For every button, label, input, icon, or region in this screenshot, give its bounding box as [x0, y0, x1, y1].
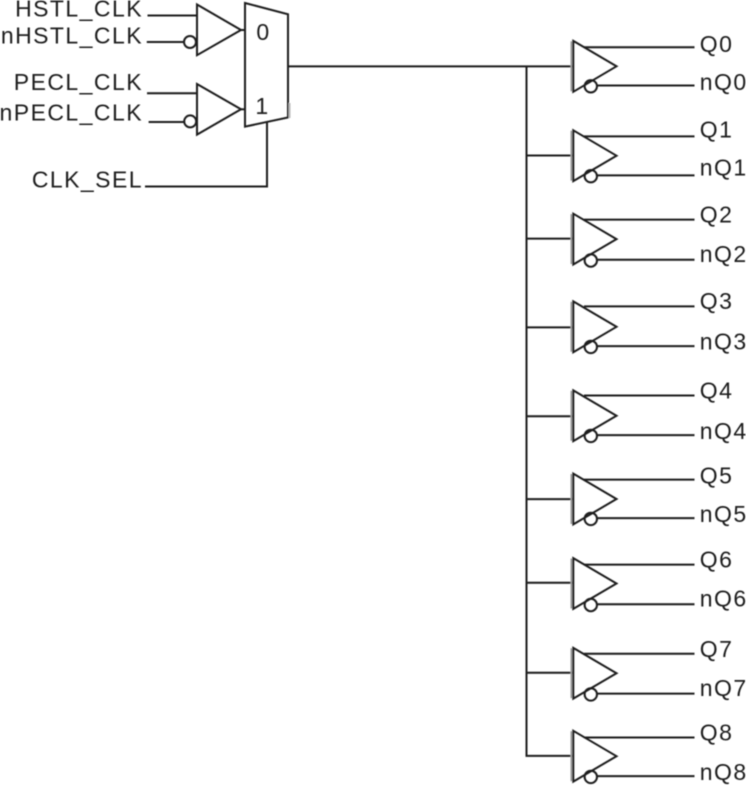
wire Q5	[584, 479, 695, 481]
wire U1 output to mux pin 0	[241, 29, 245, 31]
wire nQ8	[597, 775, 695, 777]
svg-text:nQ1: nQ1	[700, 155, 746, 181]
wire nQ1	[597, 174, 695, 176]
buffer U9 (output Q5)	[527, 462, 746, 527]
wire Q3	[584, 305, 695, 307]
buffer U7 (output Q3)	[527, 288, 746, 354]
inverting bubble U12	[585, 771, 597, 783]
left-edge ghost artifact U9	[570, 474, 572, 524]
wire nQ4	[597, 434, 695, 436]
inverting bubble U6	[585, 254, 597, 266]
wire Q2	[584, 219, 695, 221]
wire HSTL_CLK to buffer U1	[148, 15, 198, 17]
svg-text:nQ3: nQ3	[700, 328, 746, 354]
wire U2 output to mux pin 1	[241, 108, 245, 110]
inverting bubble U11	[585, 688, 597, 700]
svg-text:nQ0: nQ0	[700, 69, 746, 95]
wire Q8	[584, 737, 695, 739]
buffer U8 (output Q4)	[527, 377, 746, 444]
wire mux output main	[288, 65, 573, 67]
wire Q1	[584, 135, 695, 137]
wire bus stub to buffer U11	[527, 672, 574, 674]
svg-text:CLK_SEL: CLK_SEL	[32, 167, 143, 193]
buffer U2 (PECL input)	[197, 84, 241, 135]
wire nQ0	[597, 85, 695, 87]
svg-text:HSTL_CLK: HSTL_CLK	[15, 0, 143, 21]
buffer U10 (output Q6)	[527, 546, 746, 611]
inverting bubble U2	[184, 115, 196, 127]
wire nQ3	[597, 345, 695, 347]
left-edge ghost artifact U6	[570, 214, 572, 264]
svg-text:nQ6: nQ6	[700, 585, 746, 611]
buffer U12 (output Q8)	[571, 719, 746, 785]
left-edge ghost artifact U7	[570, 302, 572, 352]
wire nQ6	[597, 603, 695, 605]
svg-text:Q6: Q6	[700, 546, 734, 572]
mux U3	[245, 3, 288, 127]
svg-text:PECL_CLK: PECL_CLK	[14, 69, 143, 95]
wire bus stub to buffer U5	[527, 155, 574, 157]
wire bus stub to buffer U7	[527, 326, 574, 328]
wire CLK_SEL vertical to mux select	[266, 122, 268, 188]
buffer U1 (HSTL input)	[197, 5, 241, 56]
wire PECL_CLK to buffer U2	[147, 92, 197, 94]
wire nPECL_CLK to buffer U2 bubble	[149, 121, 184, 123]
svg-text:Q1: Q1	[700, 116, 734, 142]
left-edge ghost artifact U12	[570, 731, 572, 781]
left-edge ghost artifact U11	[570, 648, 572, 698]
left-edge ghost artifact U10	[570, 559, 572, 609]
svg-text:nQ2: nQ2	[700, 241, 746, 267]
svg-text:Q7: Q7	[700, 636, 734, 662]
wire nHSTL_CLK to buffer U1 bubble	[147, 41, 184, 43]
wire Q0	[584, 46, 695, 48]
inverting bubble U10	[585, 599, 597, 611]
wire bus stub to buffer U9	[527, 498, 574, 500]
left-edge ghost artifact U8	[570, 391, 572, 441]
svg-text:nQ8: nQ8	[700, 759, 746, 785]
inverting bubble U8	[585, 430, 597, 442]
inverting bubble U1	[184, 36, 196, 48]
wire Q7	[584, 653, 695, 655]
wire nQ7	[597, 693, 695, 695]
svg-text:0: 0	[256, 19, 270, 45]
wire CLK_SEL horizontal	[145, 186, 267, 188]
buffer U4 (output Q0)	[571, 31, 746, 95]
inverting bubble U7	[585, 341, 597, 353]
svg-text:Q2: Q2	[700, 201, 734, 227]
wire nQ5	[597, 517, 695, 519]
inverting bubble U9	[585, 513, 597, 525]
inverting bubble U4	[585, 80, 597, 92]
wire Q4	[584, 395, 695, 397]
svg-text:nQ5: nQ5	[700, 501, 746, 527]
svg-text:nQ7: nQ7	[700, 675, 746, 701]
wire bus vertical	[527, 66, 574, 756]
buffer U5 (output Q1)	[527, 116, 746, 182]
wire Q6	[584, 564, 695, 566]
svg-text:nHSTL_CLK: nHSTL_CLK	[1, 23, 143, 49]
buffer U11 (output Q7)	[527, 636, 746, 701]
svg-text:Q3: Q3	[700, 288, 734, 314]
buffer U6 (output Q2)	[527, 201, 746, 266]
mux right-edge ghost artifact	[289, 103, 291, 118]
svg-text:nQ4: nQ4	[700, 418, 746, 444]
svg-text:Q0: Q0	[700, 31, 734, 57]
svg-text:1: 1	[255, 93, 269, 119]
svg-text:nPECL_CLK: nPECL_CLK	[0, 100, 143, 126]
inverting bubble U5	[585, 170, 597, 182]
wire bus stub to buffer U10	[527, 582, 574, 584]
svg-text:Q4: Q4	[700, 377, 734, 403]
svg-text:Q8: Q8	[700, 719, 734, 745]
left-edge ghost artifact U4	[570, 41, 572, 91]
wire bus stub to buffer U8	[527, 415, 574, 417]
wire nQ2	[597, 259, 695, 261]
left-edge ghost artifact U5	[570, 131, 572, 181]
wire bus stub to buffer U6	[527, 238, 574, 240]
svg-text:Q5: Q5	[700, 462, 734, 488]
